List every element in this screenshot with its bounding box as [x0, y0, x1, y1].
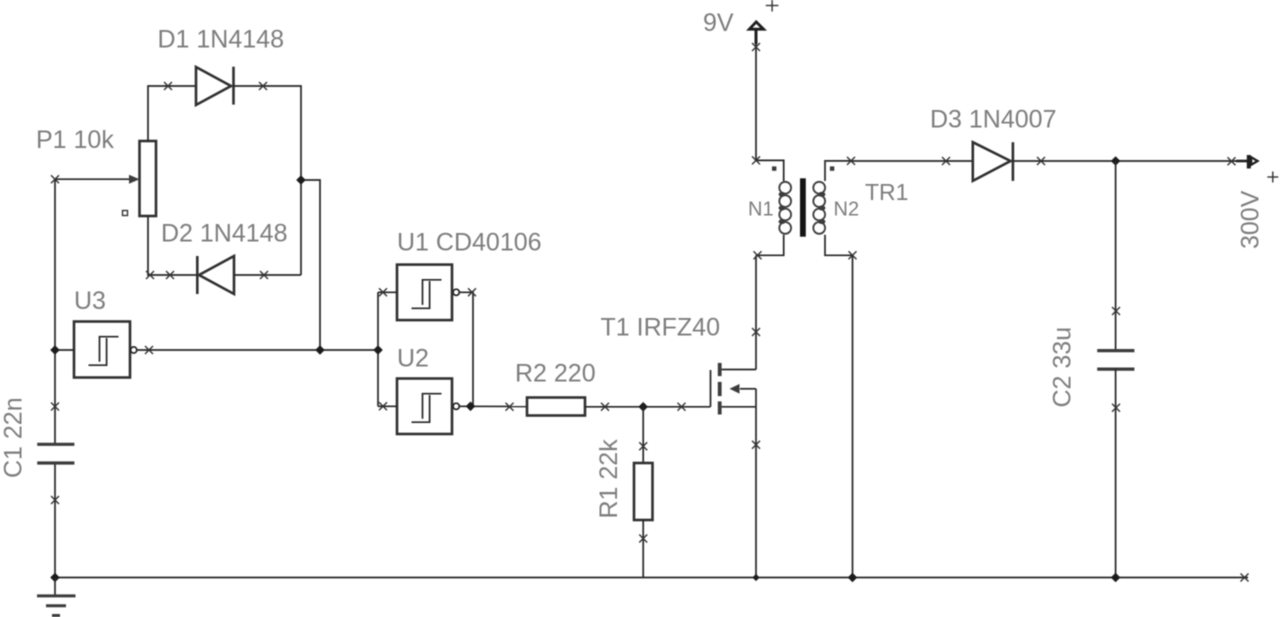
pin cross D2 cathode wire — [166, 271, 174, 279]
transformer TR1 N1 winding coil — [779, 182, 791, 234]
diode D1 1N4148 — [196, 67, 234, 105]
pin cross R1 bottom — [639, 535, 647, 543]
svg-text:300V: 300V — [1237, 190, 1265, 249]
wire N2 bottom down to ground rail — [852, 255, 854, 577]
wire MOSFET source down to ground rail — [755, 407, 757, 578]
op-amp U2 Schmitt inverter box — [397, 379, 459, 435]
node junction U3 input — [50, 345, 60, 355]
wire D1 cathode to right vertical — [234, 86, 302, 275]
transformer TR1 core — [800, 178, 806, 236]
node junction R1 top — [638, 402, 648, 412]
svg-text:D3 1N4007: D3 1N4007 — [930, 106, 1056, 134]
pin cross D3 cathode — [1037, 157, 1045, 165]
node junction input vertical on U3 wire — [373, 345, 383, 355]
transformer TR1 N1 winding leads — [756, 160, 784, 255]
pin cross 300V arrow — [1228, 157, 1236, 165]
transistor T1 MOSFET symbol — [711, 363, 757, 415]
potentiometer P1 wiper arrow — [129, 175, 140, 184]
svg-text:U1 CD40106: U1 CD40106 — [397, 229, 542, 257]
svg-text:D1 1N4148: D1 1N4148 — [158, 26, 284, 54]
wire U3 output to U1/U2 input vertical — [137, 349, 378, 351]
svg-text:C1 22n: C1 22n — [0, 397, 28, 478]
svg-text:P1 10k: P1 10k — [36, 126, 114, 154]
pin cross C1 bottom — [51, 496, 59, 504]
wire pot bottom to D2 row — [148, 216, 197, 275]
pin cross C2 bottom — [1112, 404, 1120, 412]
transformer TR1 N1 polarity dot — [772, 166, 776, 170]
svg-text:R2 220: R2 220 — [515, 360, 596, 388]
pin cross U1 input — [379, 288, 387, 296]
pin cross D2 anode wire — [260, 271, 268, 279]
pin cross R2 right — [601, 403, 609, 411]
transformer TR1 N2 winding leads — [825, 161, 853, 255]
svg-text:T1 IRFZ40: T1 IRFZ40 — [601, 314, 720, 342]
wire U3 input stub — [55, 349, 74, 351]
pin cross R2 left — [506, 403, 514, 411]
transformer TR1 N2 polarity dot — [830, 166, 834, 170]
potentiometer P1 body — [123, 141, 157, 216]
node junction N2 at ground rail — [848, 573, 858, 583]
node junction U1/U2 outputs — [466, 402, 476, 412]
resistor R1 — [634, 463, 653, 520]
transformer TR1 N2 winding knots — [818, 192, 825, 224]
op-amp U1 Schmitt inverter box — [397, 265, 459, 321]
transformer TR1 N2 winding coil — [813, 182, 825, 234]
capacitor C1 — [37, 444, 74, 463]
output plus sign 300V — [1267, 172, 1278, 183]
wire R2 to gate (through R1 junction) — [585, 406, 711, 408]
pin cross N1 bottom corner — [754, 251, 762, 259]
wire U1 output loop to U2 output — [459, 292, 473, 406]
wire jog from D1/D2 net down to U3 output net — [301, 180, 320, 350]
ground symbol — [37, 578, 76, 616]
node junction D1/D2 right — [296, 175, 306, 185]
ground rail wire — [55, 577, 1248, 579]
wire MOSFET drain up to N1 bottom — [755, 255, 757, 369]
pin cross C2 top — [1112, 307, 1120, 315]
pin cross wiper wire left end — [51, 175, 59, 183]
svg-text:N2: N2 — [834, 199, 860, 221]
pin cross D3 anode — [942, 157, 950, 165]
output 300V arrow — [1236, 155, 1258, 169]
capacitor C2 — [1097, 351, 1134, 370]
node junction C2 at ground rail — [1111, 573, 1121, 583]
svg-text:9V: 9V — [703, 9, 734, 37]
pin cross ground rail right end — [1241, 574, 1249, 582]
pin cross D1 cathode wire — [259, 82, 267, 90]
pin cross source wire — [752, 441, 760, 449]
svg-text:C2 33u: C2 33u — [1049, 327, 1077, 408]
power 9V supply arrow — [749, 22, 763, 161]
pin cross U1 output — [468, 288, 476, 296]
pin cross gate wire — [678, 403, 686, 411]
wire D3 cathode to output — [1013, 160, 1238, 162]
diode D3 1N4007 — [973, 142, 1013, 181]
pin cross D2 cathode corner — [146, 271, 154, 279]
svg-text:R1 22k: R1 22k — [595, 439, 623, 519]
wire C1 bottom to ground rail — [54, 463, 56, 578]
wire C2 bottom lead to ground rail — [1115, 369, 1117, 577]
svg-text:U3: U3 — [74, 287, 106, 315]
wire N2 top to D3 anode — [851, 160, 973, 162]
pin cross D1 anode — [164, 82, 172, 90]
node junction source at ground rail — [752, 574, 759, 581]
svg-text:D2 1N4148: D2 1N4148 — [161, 220, 287, 248]
wire R1 upper lead — [642, 407, 644, 463]
wire R1 lower lead to ground rail — [642, 520, 644, 578]
svg-text:U2: U2 — [397, 345, 429, 373]
svg-text:TR1: TR1 — [865, 179, 908, 205]
pin cross U3 output — [145, 346, 153, 354]
wire D2 anode to right vertical — [234, 274, 301, 276]
power plus sign 9V — [766, 0, 779, 12]
wire left vertical net (wiper/U3-in/C1 top) — [54, 179, 56, 444]
pin cross N1 top corner — [752, 156, 760, 164]
pin cross U2 input — [379, 402, 387, 410]
op-amp U3 Schmitt inverter box — [74, 322, 137, 378]
svg-text:N1: N1 — [748, 199, 774, 221]
wire U1/U2 input vertical with stubs — [378, 292, 397, 406]
wire U2 output to R2 — [459, 405, 527, 407]
pin cross 9V stem — [752, 43, 760, 51]
node junction ground left — [50, 573, 60, 583]
pin cross R1 top — [639, 442, 647, 450]
wire C2 top lead — [1115, 161, 1117, 351]
resistor R2 — [527, 398, 585, 416]
pin cross N2 top wire — [847, 157, 855, 165]
pin cross N2 bottom corner — [849, 251, 857, 259]
pin cross C1 top — [51, 403, 59, 411]
wire pot top to D1 row — [148, 86, 196, 141]
diode D2 1N4148 — [197, 256, 234, 294]
pin cross drain wire — [752, 328, 760, 336]
node junction C2 top — [1111, 156, 1121, 166]
transformer TR1 N1 winding knots — [779, 192, 786, 224]
node junction jog meets U3 output wire — [315, 345, 325, 355]
wire pot wiper horizontal — [55, 178, 131, 180]
